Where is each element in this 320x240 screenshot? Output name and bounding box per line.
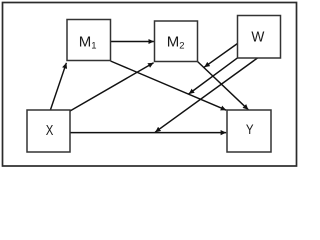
svg-text:Y: Y [246,121,254,137]
node M2 [155,21,198,62]
wire M1 to M2 [111,41,154,43]
wire W to path M2-Y (moderation) [204,44,237,68]
node X [27,110,70,152]
wire M2 to Y [198,62,249,110]
node W [238,16,281,59]
node Y [227,110,271,152]
wire W to path M1-Y (moderation) [189,58,238,94]
wire X to Y [70,132,226,134]
svg-text:X: X [46,123,54,139]
svg-text:W: W [251,29,265,46]
wire M1 to Y [111,61,227,110]
outer frame [3,3,297,167]
wire W to path X-Y (moderation) [155,58,257,132]
node M1 [67,20,111,61]
wire X to M1 [50,63,66,110]
wire X to M2 [70,63,154,111]
